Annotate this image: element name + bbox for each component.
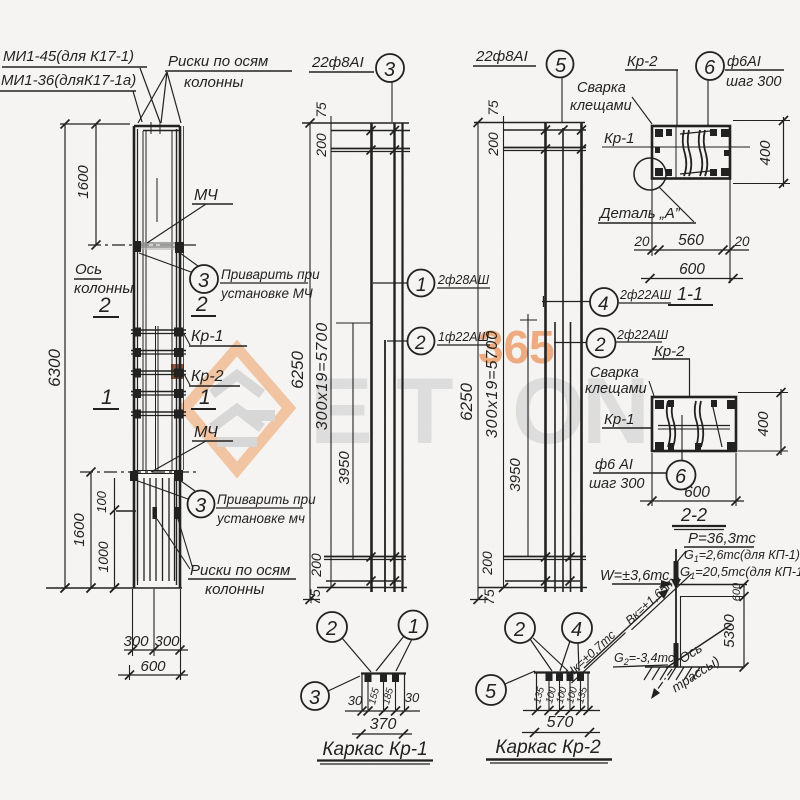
dim 5300 box: [680, 585, 749, 672]
section 1-1 stirrup wires: [680, 130, 710, 176]
dimension 600 section 2-2: [640, 453, 744, 506]
top dim connector: [60, 123, 130, 125]
dowel bars bottom: [138, 478, 175, 581]
watermark hexagon logo: [185, 348, 289, 470]
dimension 20 560 20: [633, 178, 750, 283]
ground hatch: [644, 667, 744, 680]
load P value: [684, 530, 756, 547]
note privarit pri ustanovke MCh upper: [220, 267, 320, 301]
section mark 2 left: [93, 294, 119, 317]
section 1-1 rectangle: [602, 126, 750, 179]
label svarka kleshchami top: [570, 80, 652, 124]
callout 22f8AI with circle 3 mid: [309, 54, 404, 122]
detail A circle: [598, 158, 696, 223]
dimension 1600 top: [75, 120, 101, 250]
title Karkas Kr-2: [486, 737, 612, 763]
right cage rotated dims: [457, 100, 524, 605]
mid cage bars: [372, 123, 403, 592]
section 2-2 rectangle: [652, 397, 736, 461]
label MI1-45: [2, 48, 147, 67]
section 1-1 rebar dots: [655, 129, 729, 176]
label Kr-2: [184, 368, 240, 386]
section mark 1 left: [93, 386, 119, 409]
callout circle 5 kr2 detail: [476, 671, 535, 705]
note privarit pri ustanovke lower: [216, 492, 316, 526]
title 1-1: [668, 284, 713, 305]
callout circle 4 right: [542, 288, 672, 316]
watermark letters ETON: [310, 321, 650, 463]
leader lines top labels: [133, 68, 181, 123]
callout circle 2 right: [554, 328, 669, 358]
label MI1-36: [0, 72, 136, 91]
load post: [671, 549, 681, 667]
callout circle 3 kr1 detail: [301, 676, 360, 710]
dim 600 small: [676, 580, 749, 601]
dimension 600 section 1-1: [641, 261, 743, 283]
dash-dot arrow below ground: [651, 669, 672, 699]
dimension 600 bottom: [118, 658, 188, 680]
callout 22f8AI with circle 5 right: [473, 48, 574, 122]
callout circle 2 kr2 detail: [505, 613, 568, 671]
MCh label upper: [147, 187, 233, 243]
kr2 detail section strip: [534, 672, 590, 710]
mid cage rotated dims: [288, 102, 353, 605]
label Kr-1 at section 1-1: [604, 130, 635, 147]
title Karkas Kr-1: [317, 739, 433, 764]
section mark 1 right: [191, 386, 216, 409]
stirrup band 3: [131, 369, 186, 378]
right cage top tie lines: [474, 118, 587, 154]
callout circle 2 mid: [387, 328, 490, 355]
callout circle 1 mid: [373, 270, 490, 297]
kr2 detail dim 570: [522, 714, 600, 737]
scan noise overlay: [0, 0, 1, 1]
stirrup band 1: [131, 328, 186, 337]
callout circle 6 top: [696, 52, 784, 126]
label svarka kleshchami mid: [585, 365, 654, 397]
title 2-2: [672, 505, 726, 530]
dimension 300 300: [123, 633, 188, 655]
leaders to riski lower: [157, 519, 193, 569]
right cage dim verticals: [478, 116, 537, 599]
kr2 detail dims 135 100x3 135: [523, 685, 600, 715]
upper axis line with MCh plates: [88, 241, 196, 253]
dimension 400 section 2-2: [738, 388, 788, 456]
watermark dark spot: [171, 364, 184, 379]
stirrup band 4: [131, 389, 186, 398]
dimension 6300: [45, 120, 70, 593]
right cage bottom tie lines: [470, 553, 587, 605]
callout circle 3 lower: [138, 481, 215, 518]
stirrup band 5: [131, 410, 186, 419]
column outline: [134, 122, 184, 588]
os trassy diagonal: [666, 624, 732, 695]
label Kr-1 at section 2-2: [602, 411, 652, 428]
label riski po osyam bottom: [188, 562, 296, 598]
column inner bars: [143, 131, 172, 471]
kr1 detail dim 370: [352, 716, 412, 739]
right cage bars: [546, 122, 582, 592]
MCh label lower: [151, 424, 233, 472]
bottom dim extension lines: [130, 589, 181, 680]
load G2 value: [613, 651, 675, 667]
mid cage bottom tie lines: [303, 553, 407, 605]
Hk Bk diagonal loads: [561, 563, 691, 683]
section mark 2 right: [191, 293, 216, 316]
bottom baseline: [46, 584, 182, 593]
kr1 detail dims 30 155 185 30: [345, 686, 420, 715]
load G1 values: [677, 548, 800, 581]
callout circle 4 kr2 detail: [560, 613, 592, 671]
section 2-2 rebar dots: [655, 400, 735, 450]
lower axis line with MCh plates: [80, 471, 196, 482]
label Kr-2 top with leader to section 1-1: [625, 53, 678, 126]
section 2-2 stirrup wires: [667, 401, 722, 447]
callout circle 3 upper: [139, 253, 218, 293]
kr1 detail section strip: [361, 673, 406, 710]
callout circle 2 kr1 detail: [317, 612, 371, 672]
dimension 400 section 1-1: [733, 116, 790, 188]
label riski po osyam top: [165, 53, 292, 91]
stirrup band 2: [131, 348, 186, 357]
dimension 100 and 1000: [94, 478, 136, 593]
mid cage dim verticals: [310, 116, 371, 599]
callout circle 1 kr1 detail: [376, 611, 428, 672]
label os kolonny: [74, 261, 133, 297]
load W value with arrow: [600, 568, 673, 588]
mid cage top tie lines: [302, 119, 410, 155]
dimension 1600 bottom: [71, 468, 96, 593]
callout circle 6 lower: [589, 451, 696, 492]
label Kr-1: [184, 328, 247, 346]
riska marks on bars: [153, 507, 180, 519]
label Kr-2 with leader to section 2-2: [652, 343, 690, 396]
